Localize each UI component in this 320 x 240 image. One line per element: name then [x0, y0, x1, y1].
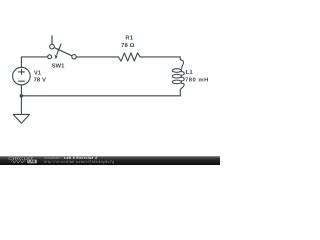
wire: SW1 right terminal to resistor R1: [76, 56, 118, 58]
wire: left rail vertical from top-left corner down to V1 top: [20, 57, 22, 67]
switch SW1: [48, 36, 77, 60]
ground: [13, 114, 29, 123]
svg-text:V1: V1: [34, 70, 42, 76]
svg-text:78 V: 78 V: [34, 78, 47, 84]
svg-text:780 mH: 780 mH: [185, 78, 209, 84]
svg-text:R1: R1: [125, 36, 133, 42]
CircuitLab logo: [0, 155, 42, 165]
wire: top horizontal from corner to SW1 left terminal: [21, 56, 47, 58]
svg-text:SW1: SW1: [51, 64, 65, 70]
voltage source V1: [13, 67, 31, 85]
svg-text:LAB: LAB: [28, 160, 35, 164]
wire: bottom horizontal: [21, 95, 180, 97]
footer url text: [44, 161, 115, 165]
footer bar: [0, 156, 220, 165]
footer title text: [44, 157, 97, 161]
wire: inductor L1 to bottom-right corner: [179, 91, 181, 96]
resistor R1: [118, 53, 140, 61]
svg-text:L1: L1: [186, 70, 194, 76]
svg-text:78 Ω: 78 Ω: [121, 43, 134, 49]
schematic canvas: [0, 0, 220, 165]
node: junction of V1, bottom wire and ground: [20, 94, 24, 98]
wire: V1 bottom through junction down to ground: [20, 85, 22, 115]
wire: top-right corner down to inductor L1: [179, 57, 181, 60]
inductor L1: [172, 60, 184, 91]
wire: resistor R1 to top-right corner: [140, 56, 180, 58]
